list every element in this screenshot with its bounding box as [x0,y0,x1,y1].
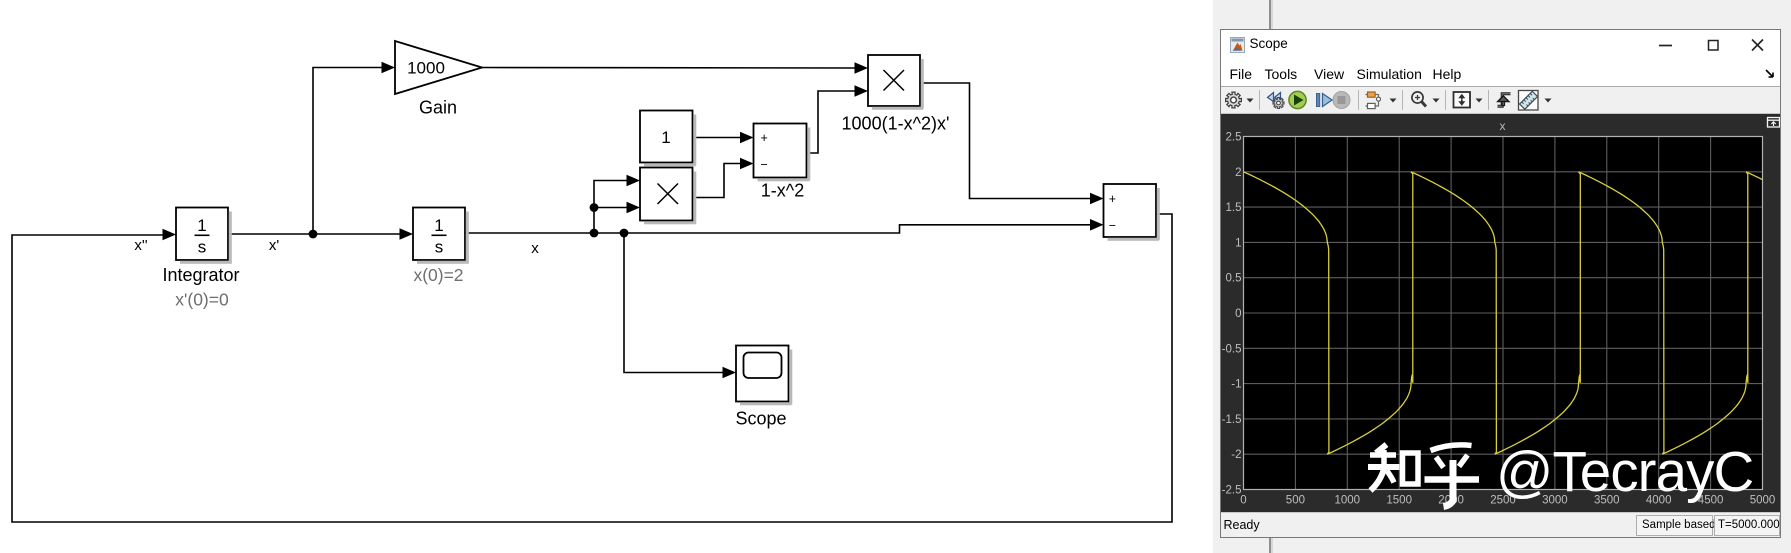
wire junction up to gain [313,68,382,235]
svg-text:x: x [531,240,539,257]
svg-text:1.5: 1.5 [1226,202,1242,214]
label x(0)=2 [413,265,463,285]
wire branch to product1 input2 [594,207,627,209]
svg-text:Integrator: Integrator [162,265,239,285]
svg-text:−: − [761,158,768,172]
sum S2 block [1104,184,1160,241]
label Gain [419,98,457,118]
arrowhead into product1 input1 [627,175,641,187]
simulation rewind icon [1268,93,1285,109]
constant C1 block [640,111,696,167]
svg-text:5000: 5000 [1750,495,1776,507]
svg-text:x': x' [269,237,280,254]
wire product2 output to sum2 plus [920,83,1090,199]
svg-text:−: − [1109,218,1116,232]
wire feedback loop from Sum2 output to Integrator input [12,214,1172,522]
svg-text:500: 500 [1286,495,1305,507]
svg-text:@TecrayC: @TecrayC [1496,440,1753,503]
svg-text:x(0)=2: x(0)=2 [413,265,463,285]
step forward icon [1317,94,1333,107]
svg-text:1: 1 [434,216,443,235]
label 1-x^2 [761,181,804,201]
arrowhead into scope [723,367,737,379]
product P2 block [868,55,924,110]
simulink editor right edge line [1269,0,1271,553]
svg-text:x: x [1500,119,1506,133]
arrowhead into sum2 plus [1090,193,1104,205]
trigger signal icon [1498,94,1511,107]
background right gray area [1213,0,1791,553]
status bar [1221,512,1780,537]
wire junction to integrator2 [313,233,400,235]
svg-text:+: + [1109,192,1116,206]
wire integrator2 output to sum2 minus input [465,225,1090,233]
wire branch to product1 input1 [594,181,627,234]
junction node on branch to product1 [590,203,599,212]
svg-text:2: 2 [1235,167,1241,179]
svg-text:Gain: Gain [419,98,457,118]
scope block [736,346,792,406]
arrowhead into product1 input2 [627,202,641,214]
run play icon [1289,91,1306,108]
title bar [1221,30,1780,57]
stop icon disabled [1333,92,1350,109]
svg-text:s: s [435,238,444,257]
label 1000(1-x^2)x' [842,114,950,134]
svg-text:1: 1 [1235,237,1241,249]
arrowhead into product2 input2 [855,85,869,97]
expand icon [1768,118,1780,128]
arrowhead into sum1 minus [740,158,754,170]
label x'(0)=0 [175,290,229,310]
arrowhead into integrator1 [163,229,177,241]
svg-text:-2.5: -2.5 [1222,485,1242,497]
wire sum1 output to product2 input2 [807,91,855,153]
watermark [1368,440,1753,507]
arrowhead into integrator2 [400,228,414,240]
svg-text:1000: 1000 [1335,495,1361,507]
svg-text:x'': x'' [134,237,147,254]
arrowhead into sum1 plus [740,132,754,144]
svg-text:0.5: 0.5 [1226,273,1242,285]
svg-text:-1.5: -1.5 [1222,414,1242,426]
zoom icon [1412,92,1426,107]
window buttons minimize maximize close [1222,30,1780,57]
label Scope [735,409,786,429]
signal label x' [269,237,280,254]
wire constant1 to sum1 plus [693,137,741,139]
svg-text:Scope: Scope [735,409,786,429]
arrowhead into sum2 minus [1090,219,1104,231]
svg-text:1: 1 [197,216,206,235]
product P1 block [640,168,696,225]
svg-text:0: 0 [1235,308,1241,320]
measurements ruler icon [1519,91,1539,111]
svg-text:1: 1 [661,128,670,147]
fit to view icon [1454,92,1471,108]
svg-text:1000(1-x^2)x': 1000(1-x^2)x' [842,114,950,134]
gain G1 triangle [395,41,482,94]
svg-text:-1: -1 [1231,379,1241,391]
wire branch down to scope [624,233,723,373]
junction node on x line 2 [620,229,629,238]
svg-text:x'(0)=0: x'(0)=0 [175,290,229,310]
gear settings icon [1226,92,1242,108]
wire integrator1 output to junction [228,233,313,235]
svg-text:-2: -2 [1231,449,1241,461]
svg-text:-0.5: -0.5 [1222,343,1242,355]
svg-text:1500: 1500 [1386,495,1412,507]
svg-text:+: + [761,131,768,145]
arrowhead into gain [382,62,396,74]
svg-text:1-x^2: 1-x^2 [761,181,804,201]
integrator U1 block [176,208,232,264]
label Integrator [162,265,239,285]
svg-text:2.5: 2.5 [1226,132,1242,144]
arrowhead into product2 input1 [855,62,869,74]
signal label x [531,240,539,257]
sum S1 block [754,124,811,182]
toolbar [1221,87,1780,114]
simulink blocks icon [1366,92,1381,109]
wire gain output to product2 input1 [482,67,855,70]
svg-text:0: 0 [1240,495,1246,507]
junction node on x line 1 [590,229,599,238]
junction node after integrator1 [309,230,318,239]
plot area [1221,114,1780,512]
svg-text:s: s [198,238,207,257]
matlab scope window icon [1230,37,1245,53]
integrator U2 block [413,208,469,264]
wire product1 output to sum1 minus [693,164,741,198]
svg-text:1000: 1000 [407,59,445,78]
signal label x'' [134,237,147,254]
menu bar [1221,57,1780,87]
